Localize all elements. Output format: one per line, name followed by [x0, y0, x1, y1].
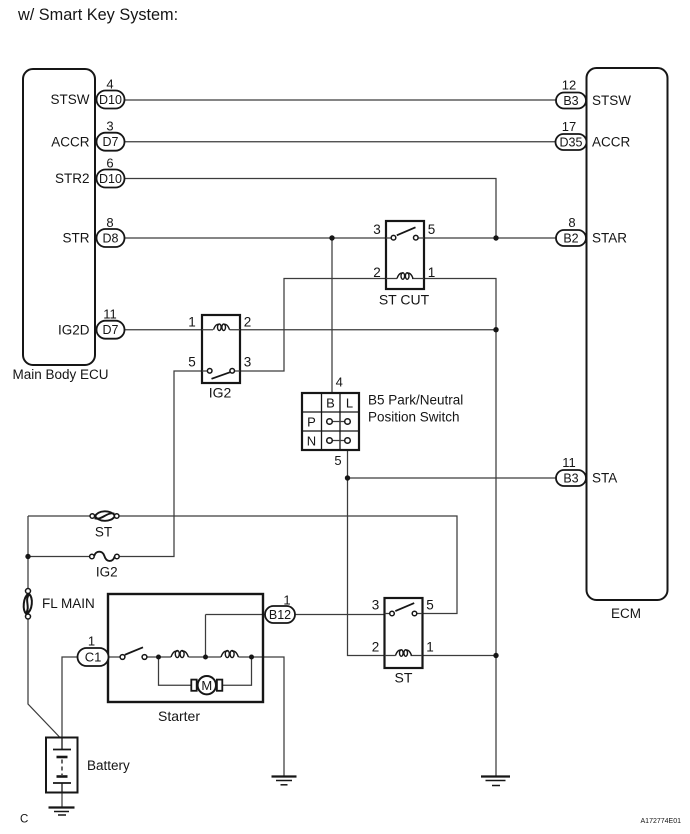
wire IG2 pin5 to IG2 fuse [119, 371, 207, 557]
junction node STA x347 [345, 475, 350, 480]
svg-text:STSW: STSW [592, 93, 631, 108]
connector B12 [265, 592, 295, 623]
relay ST CUT [373, 221, 435, 307]
ECM [587, 68, 668, 621]
svg-text:M: M [201, 678, 212, 693]
svg-text:P: P [307, 415, 316, 430]
svg-text:D7: D7 [103, 135, 119, 149]
svg-text:IG2: IG2 [209, 384, 232, 400]
svg-text:Starter: Starter [158, 708, 200, 724]
starter box [108, 594, 263, 724]
svg-text:B3: B3 [563, 94, 578, 108]
svg-text:ST: ST [395, 669, 413, 685]
wire motor branch [159, 657, 252, 685]
svg-text:FL MAIN: FL MAIN [42, 596, 95, 611]
svg-text:B5 Park/Neutral: B5 Park/Neutral [368, 392, 463, 407]
svg-text:IG2: IG2 [96, 564, 118, 579]
svg-text:ECM: ECM [611, 606, 641, 621]
Main Body ECU [12, 69, 108, 382]
pin B3 STA ECM [556, 455, 617, 486]
B5 Park/Neutral Position Switch [302, 375, 463, 469]
pin D35 ACCR ECM [556, 119, 631, 150]
starter coil 1 [171, 650, 188, 657]
wire C1 to battery [62, 657, 78, 738]
wire STR2 [125, 179, 497, 238]
starter coil 2 [221, 650, 238, 657]
junction node starter a [156, 655, 161, 660]
wire starter main line [109, 657, 285, 776]
junction node starter c [249, 655, 254, 660]
relay ST [372, 598, 434, 686]
junction node STR/x332 [329, 235, 334, 240]
wire IG2 fuse to node x28 [28, 556, 90, 558]
svg-text:C1: C1 [85, 650, 102, 665]
connector C1 [78, 633, 109, 666]
svg-text:3: 3 [372, 598, 380, 613]
fuse IG2 [90, 552, 120, 580]
pin D8 STR [63, 215, 125, 247]
svg-text:12: 12 [562, 78, 576, 93]
starter switch [120, 647, 147, 659]
svg-text:B2: B2 [563, 231, 578, 245]
svg-text:ACCR: ACCR [51, 134, 90, 149]
relay IG2 [188, 315, 251, 401]
svg-text:17: 17 [562, 119, 576, 134]
pin B3 STSW ECM [556, 78, 631, 109]
svg-text:B: B [326, 396, 335, 411]
pin D7 IG2D [58, 307, 125, 339]
svg-text:ST CUT: ST CUT [379, 291, 430, 307]
wire battery feed x28 [28, 516, 60, 737]
svg-text:D35: D35 [560, 135, 583, 149]
svg-text:STR2: STR2 [55, 171, 90, 186]
fusible link FL MAIN [24, 589, 95, 620]
svg-text:N: N [307, 434, 316, 449]
junction node starter b [203, 655, 208, 660]
svg-text:D7: D7 [103, 323, 119, 337]
wire B5 pin5 STA [348, 450, 557, 656]
svg-text:5: 5 [426, 598, 434, 613]
svg-text:1: 1 [426, 640, 434, 655]
wire ST fuse line to ST relay pin5 [28, 516, 457, 614]
svg-text:5: 5 [334, 453, 341, 468]
wire B12 to ST relay pin3 [206, 614, 390, 616]
battery [46, 738, 130, 793]
svg-text:4: 4 [336, 375, 343, 390]
svg-text:STAR: STAR [592, 231, 627, 246]
svg-text:1: 1 [188, 315, 196, 330]
svg-text:1: 1 [88, 633, 95, 648]
wire B12 riser [205, 615, 207, 658]
svg-text:Battery: Battery [87, 758, 130, 773]
svg-text:ST: ST [95, 524, 112, 539]
junction node ST pin1 x496 [493, 653, 498, 658]
svg-text:3: 3 [106, 119, 113, 134]
motor M [191, 676, 222, 694]
svg-text:ACCR: ACCR [592, 135, 631, 150]
svg-text:5: 5 [188, 355, 196, 370]
wire IG2 pin2 to main vertical [230, 329, 497, 331]
wire STR [125, 237, 392, 239]
svg-text:2: 2 [244, 315, 252, 330]
svg-text:5: 5 [428, 222, 436, 237]
svg-text:IG2D: IG2D [58, 322, 90, 337]
svg-text:STA: STA [592, 471, 617, 486]
wire node x332 down to B5 [331, 238, 333, 393]
svg-text:A172774E01: A172774E01 [641, 818, 682, 825]
svg-text:D10: D10 [99, 93, 122, 107]
svg-text:8: 8 [568, 215, 575, 230]
junction node STAR/x496 [493, 235, 498, 240]
svg-text:w/ Smart Key System:: w/ Smart Key System: [17, 6, 178, 24]
svg-text:D8: D8 [103, 231, 119, 245]
wire ACCR [125, 141, 557, 143]
svg-text:STR: STR [63, 231, 90, 246]
pin D10 STSW [51, 77, 125, 109]
svg-text:2: 2 [373, 265, 381, 280]
svg-text:4: 4 [106, 77, 113, 92]
svg-text:1: 1 [428, 265, 436, 280]
svg-text:Main Body ECU: Main Body ECU [12, 367, 108, 382]
svg-text:D10: D10 [99, 172, 122, 186]
wire IG2D [125, 329, 214, 331]
svg-text:STSW: STSW [51, 92, 90, 107]
wire STSW [125, 99, 557, 101]
ground main [481, 777, 510, 786]
svg-text:B3: B3 [563, 471, 578, 485]
wire STAR [418, 237, 556, 239]
pin B2 STAR ECM [556, 215, 627, 246]
svg-text:Position Switch: Position Switch [368, 410, 460, 425]
svg-text:1: 1 [283, 592, 290, 607]
svg-text:6: 6 [106, 156, 113, 171]
svg-text:B12: B12 [269, 608, 291, 622]
svg-text:3: 3 [244, 355, 252, 370]
junction node IG2D/x496 [493, 327, 498, 332]
svg-text:8: 8 [106, 215, 113, 230]
wire ST relay pin1 [406, 655, 496, 657]
ground battery [49, 808, 75, 816]
svg-text:C: C [20, 814, 28, 826]
svg-text:2: 2 [372, 640, 380, 655]
fuse ST [90, 511, 119, 539]
wire ST CUT pin1 to ground vertical [413, 279, 497, 777]
svg-text:11: 11 [103, 307, 117, 322]
ground starter [272, 777, 297, 785]
wire battery to ground [61, 793, 63, 808]
svg-text:L: L [346, 396, 353, 411]
wire ST CUT pin2 to IG2 pin3 [234, 279, 396, 372]
svg-text:11: 11 [562, 455, 576, 470]
pin D7 ACCR [51, 119, 124, 151]
pin D10 STR2 [55, 156, 125, 188]
junction node fuse x28 [25, 554, 30, 559]
svg-text:3: 3 [373, 222, 381, 237]
